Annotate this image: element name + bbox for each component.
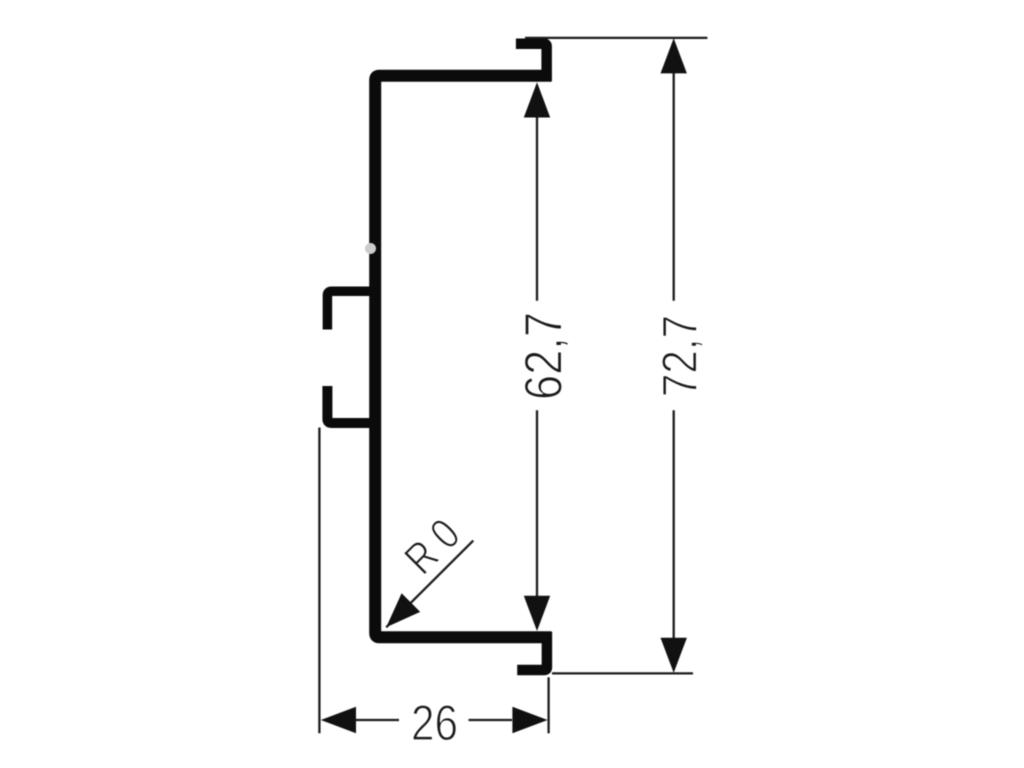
- lower mounting tab: [327, 386, 374, 423]
- profile bottom lip hook: [517, 632, 547, 670]
- arrowhead R 0: [386, 593, 420, 627]
- svg-text:72,7: 72,7: [652, 315, 707, 397]
- gray dot marker on left wall: [365, 243, 376, 254]
- svg-text:26: 26: [411, 695, 458, 751]
- extension line left (26): [318, 428, 320, 734]
- upper mounting tab: [327, 291, 374, 329]
- arrowhead 26 right: [512, 707, 547, 733]
- dimension line 62,7: [536, 117, 538, 301]
- arrowhead 72,7 up: [661, 38, 687, 73]
- dimension line 72,7: [673, 72, 675, 301]
- profile top lip hook: [516, 44, 547, 81]
- extension line right (26): [547, 677, 549, 733]
- svg-text:62,7: 62,7: [514, 312, 573, 400]
- arrowhead 72,7 down: [661, 638, 687, 673]
- arrowhead 62,7 up: [524, 82, 550, 117]
- arrowhead 62,7 down: [524, 596, 550, 631]
- extension line bottom reference (72,7): [552, 672, 693, 674]
- profile outline (aluminium C-profile cross-section): [375, 76, 551, 638]
- leader line R 0: [386, 541, 473, 628]
- extension line top reference (72,7): [525, 37, 707, 39]
- arrowhead 26 left: [321, 707, 356, 733]
- dimension line 26: [356, 719, 399, 721]
